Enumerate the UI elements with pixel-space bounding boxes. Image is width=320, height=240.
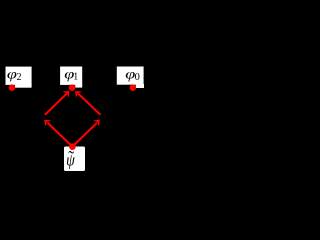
arrowhead at phi1 dot (from right) [72,88,82,98]
node psi-tilde dot [69,143,76,150]
svg-text:2: 2 [17,72,22,83]
node phi0 dot [130,84,137,91]
node phi1 label box [60,67,82,85]
node psi-tilde label box [64,147,85,172]
diagram: quiver of maps between phi2, phi1, phi0 and psi-tilde [0,0,160,173]
svg-text:1: 1 [73,71,78,82]
svg-text:ψ: ψ [66,151,75,169]
svg-text:0: 0 [135,72,140,83]
node phi2 dot [9,84,16,91]
node phi1 dot [69,84,76,91]
node phi0 label box lower-right pad [136,84,144,88]
wire: edge right-vertex to phi1 dot [78,94,100,115]
arrowhead at left-vertex [41,116,51,126]
wire: edge psi-tilde dot to left-vertex [48,123,73,147]
wire: edge psi-tilde dot to right-vertex [72,123,96,147]
node phi2 label box lower-right pad [15,84,32,88]
node phi0 label box [117,67,144,85]
arrowhead at right-vertex [93,117,103,127]
arrowhead at phi1 dot (from left) [62,88,72,98]
wire: edge left-vertex to phi1 dot [45,94,67,115]
node phi2 label box [6,67,32,85]
svg-text:φ: φ [7,66,17,82]
node phi1 label box lower-right pad [75,84,82,88]
